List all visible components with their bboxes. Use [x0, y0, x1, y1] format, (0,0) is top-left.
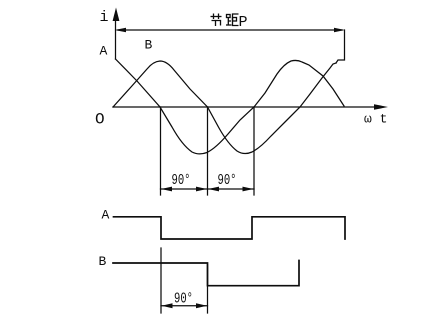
svg-text:i: i [100, 9, 109, 26]
svg-text:90°: 90° [218, 172, 237, 189]
svg-text:B: B [145, 38, 153, 53]
svg-text:O: O [95, 111, 105, 129]
svg-text:A: A [102, 207, 110, 222]
svg-text:A: A [100, 44, 108, 59]
svg-text:P: P [239, 14, 248, 31]
svg-text:ω t: ω t [364, 112, 387, 127]
svg-text:90°: 90° [174, 291, 193, 308]
svg-text:B: B [99, 254, 107, 269]
svg-text:90°: 90° [172, 172, 191, 189]
